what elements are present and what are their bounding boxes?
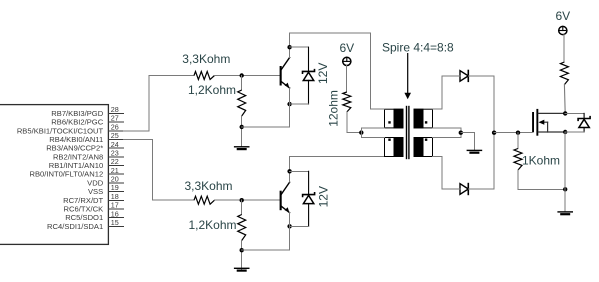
svg-text:19: 19 [111, 183, 119, 192]
svg-text:VSS: VSS [88, 187, 103, 196]
svg-text:RB3/AN9/CCP2*: RB3/AN9/CCP2* [46, 144, 103, 153]
svg-text:26: 26 [111, 122, 119, 131]
svg-text:24: 24 [111, 140, 119, 149]
svg-text:28: 28 [111, 105, 119, 114]
svg-text:RB1/INT1/AN10: RB1/INT1/AN10 [49, 161, 103, 170]
svg-text:1,2Kohm: 1,2Kohm [189, 218, 237, 232]
svg-text:1Kohm: 1Kohm [522, 153, 560, 167]
svg-text:RC4/SDI1/SDA1: RC4/SDI1/SDA1 [47, 222, 103, 231]
svg-text:3,3Kohm: 3,3Kohm [182, 52, 230, 66]
svg-text:RB6/KBI2/PGC: RB6/KBI2/PGC [51, 118, 103, 127]
svg-text:6V: 6V [339, 41, 354, 55]
svg-text:RC6/TX/CK: RC6/TX/CK [64, 204, 104, 213]
svg-text:18: 18 [111, 192, 119, 201]
svg-text:3,3Kohm: 3,3Kohm [185, 179, 233, 193]
svg-text:RC7/RX/DT: RC7/RX/DT [63, 196, 103, 205]
svg-text:RB2/INT2/AN8: RB2/INT2/AN8 [53, 152, 103, 161]
svg-text:23: 23 [111, 148, 119, 157]
svg-text:RB7/KBI3/PGD: RB7/KBI3/PGD [51, 109, 103, 118]
svg-text:15: 15 [111, 218, 119, 227]
svg-text:12V: 12V [316, 63, 330, 84]
svg-text:1,2Kohm: 1,2Kohm [188, 83, 236, 97]
svg-text:RB4/KBI0/AN11: RB4/KBI0/AN11 [49, 135, 103, 144]
svg-text:VDD: VDD [87, 178, 104, 187]
svg-text:RB5/KBI1/TOCKI/C1OUT: RB5/KBI1/TOCKI/C1OUT [17, 126, 104, 135]
svg-text:6V: 6V [555, 9, 570, 23]
svg-text:12V: 12V [317, 186, 331, 207]
svg-text:RB0/INT0/FLT0/AN12: RB0/INT0/FLT0/AN12 [29, 170, 103, 179]
svg-text:Spire 4:4=8:8: Spire 4:4=8:8 [382, 41, 454, 55]
svg-text:25: 25 [111, 131, 119, 140]
svg-text:22: 22 [111, 157, 119, 166]
svg-text:16: 16 [111, 209, 119, 218]
svg-text:21: 21 [111, 166, 119, 175]
svg-text:20: 20 [111, 175, 119, 184]
svg-text:RC5/SDO1: RC5/SDO1 [65, 213, 103, 222]
svg-text:12ohm: 12ohm [327, 90, 341, 127]
svg-text:27: 27 [111, 114, 119, 123]
svg-text:17: 17 [111, 201, 119, 210]
